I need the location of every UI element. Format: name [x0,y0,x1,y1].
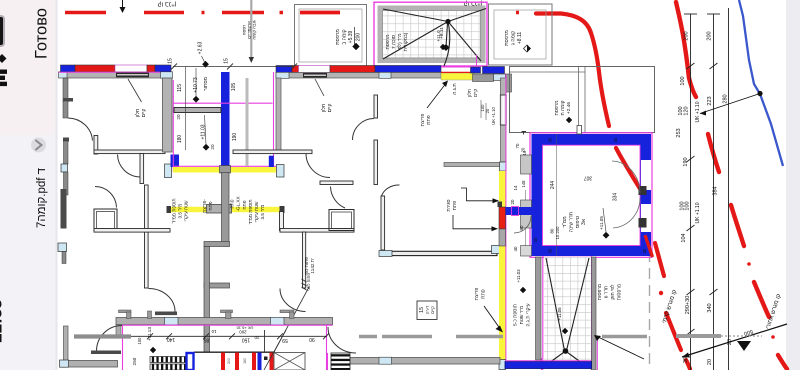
balcony C outline [489,4,553,65]
svg-text:שטח עיקרי: שטח עיקרי [254,201,259,223]
landing with X [274,353,305,370]
balcony B red dash [300,11,340,15]
red marks on right wall [645,235,653,257]
svg-text:244: 244 [550,181,556,190]
svg-text:104: 104 [681,233,687,242]
left outer wall [63,78,68,102]
sidebar chevron circle [31,138,46,153]
yellow band under mistor [173,167,276,173]
svg-text:+2.46: +2.46 [566,102,572,114]
svg-text:מרפסת: מרפסת [335,29,341,45]
svg-text:+11.13: +11.13 [147,327,152,341]
svg-text:200: 200 [356,33,362,42]
bottom dimension line [131,335,327,337]
second stair right [331,353,350,370]
left block top wall: colored segments [59,65,172,78]
svg-text:40: 40 [533,237,538,242]
svg-text:+11.05: +11.05 [557,307,562,321]
svg-text:מ"ר שטח: מ"ר שטח [519,306,525,325]
svg-text:90: 90 [309,336,315,342]
pergola gray frame [380,8,483,61]
svg-text:פתח: פתח [230,199,235,208]
svg-text:Готово: Готово [33,8,51,59]
svg-text:לפי חוק: לפי חוק [609,284,616,300]
svg-text:במקורית): במקורית) [403,32,409,51]
svg-text:מ"ר 3.5: מ"ר 3.5 [178,204,183,219]
svg-text:115: 115 [177,84,183,92]
svg-text:סגירת: סגירת [447,199,452,211]
svg-text:ממ"ד: ממ"ד [562,216,568,228]
section line continuation [246,78,249,166]
svg-text:פתוח כפי: פתוח כפי [304,257,309,275]
svg-text:59: 59 [282,337,288,343]
blue wall frame [532,134,652,256]
center block left wall [276,78,281,152]
svg-text:חלון: חלון [320,104,327,113]
dim line top [173,66,294,68]
left block top wall lower band [67,72,161,78]
svg-text:א3: א3 [581,218,587,225]
room labels [510,137,647,253]
balcony B labels [335,29,362,45]
svg-text:+8.11: +8.11 [439,27,445,39]
red regulation curve 1 (dashed, from top building line down right) [536,14,690,370]
svg-text:14: 14 [513,185,518,190]
right screen-edge strip [786,0,800,370]
svg-text:150: 150 [242,337,251,343]
svg-text:קומה ח: קומה ח [561,100,566,115]
svg-text:קומה ב: קומה ב [342,29,348,44]
pergola balcony (hatched) magenta border [374,2,487,66]
svg-text:15: 15 [224,58,230,64]
svg-text:סוכה 7: סוכה 7 [391,35,397,49]
room dim line vertical [556,134,558,256]
svg-text:140: 140 [167,336,176,342]
sidebar icon: list bars [0,70,7,74]
door arc above closet [331,187,346,209]
magenta renovation lines [123,324,333,326]
yellow wall segment right of center [441,73,474,80]
closet [329,210,354,231]
svg-text:מרפסת: מרפסת [504,30,510,46]
svg-text:190: 190 [232,133,238,142]
svg-text:100: 100 [680,76,686,85]
window on right wall [165,164,172,178]
svg-text:80: 80 [519,225,524,230]
thin wall south of center block [444,163,501,167]
svg-text:+11.03: +11.03 [516,269,521,283]
mistor gray bar [174,108,221,113]
svg-text:תוספת ממ"ד: תוספת ממ"ד [172,198,177,223]
bottom outer walls left [64,326,69,362]
svg-text:20: 20 [254,335,259,340]
wall right of yellow opening [280,212,284,231]
svg-text:10 200: 10 200 [555,226,560,239]
left block window detail [116,73,149,78]
existing window + UK labels right of center [467,89,496,125]
long bottom wall of left rooms [94,229,170,233]
svg-text:קיים: קיים [141,109,147,118]
svg-text:30: 30 [548,248,553,253]
existing-window label left [134,109,147,118]
blue service duct wall [221,72,230,168]
svg-text:פתח: פתח [242,200,247,209]
gray wall below mistor going down [222,173,230,244]
big right room wall [381,196,385,250]
svg-text:334: 334 [613,193,619,202]
right top block blue segments [471,67,481,73]
sidebar icon: diamond [0,54,7,63]
breach label with arrow bottom [475,288,487,301]
breach label with arrow to pergola [421,114,432,127]
balcony B outline [295,5,367,67]
svg-text:20: 20 [176,114,181,120]
svg-text:+5.39: +5.39 [348,30,354,43]
svg-text:30: 30 [642,248,647,253]
svg-text:340: 340 [707,303,713,312]
svg-text:מרפסות: מרפסות [598,284,603,300]
roof stub above room [577,126,582,135]
svg-text:+11.05: +11.05 [599,216,604,230]
left wall protrusions [521,155,532,174]
svg-text:מ"ר 3.5: מ"ר 3.5 [260,205,265,220]
sidebar icon: black rounded square (cropped) [0,16,4,46]
mistor dim vertical [185,67,187,150]
mistor labels [168,41,239,149]
thick gray datum bar bottom right [676,334,721,338]
svg-text:200: 200 [707,31,713,40]
svg-text:80: 80 [550,228,555,233]
center block top wall: colored segments [276,66,441,73]
right dimension line B (x=713.5) [707,14,720,370]
svg-text:10: 10 [522,150,527,155]
svg-text:תוספת כ-5: תוספת כ-5 [513,304,519,326]
door arc left of thin wall [280,289,306,312]
svg-text:250: 250 [132,357,137,365]
svg-text:פתוח לפני: פתוח לפני [306,273,311,291]
apartment-15 box [417,301,437,320]
svg-text:מרפסת: מרפסת [555,100,560,115]
svg-text:UK +1.10: UK +1.10 [695,101,701,122]
svg-text:קו בניין: קו בניין [157,1,176,8]
svg-text:פתח: פתח [208,201,213,210]
top building line (red dashed) [65,11,519,15]
svg-text:חלון: חלון [467,89,472,97]
red regulation curve 2 [676,2,787,369]
window swing arcs [612,161,640,193]
door arc above bathroom [95,187,117,208]
corridor top wall band [116,318,333,325]
thin wall with hatch, center bottom [303,232,306,288]
svg-text:פתח: פתח [482,289,487,298]
svg-text:120: 120 [684,106,690,115]
svg-text:+8.11: +8.11 [517,32,523,44]
svg-text:30: 30 [613,137,618,142]
svg-text:105: 105 [231,83,237,92]
svg-text:223: 223 [707,96,713,105]
pergola cross lines [383,9,486,67]
svg-text:384: 384 [713,186,719,195]
bottom-right survey diagonal with arrow [682,324,787,357]
top-left info column [242,20,257,39]
magenta outer outline [530,133,652,257]
svg-text:גובה קומה: גובה קומה [252,20,257,39]
dashed lot boundary vertical [649,200,651,370]
central vertical wall [145,185,149,288]
svg-text:פריצת: פריצת [475,288,480,301]
svg-text:קיים: קיים [473,89,478,97]
svg-text:מרפסות: מרפסות [618,284,623,300]
right dimension line A (x=690) [684,14,697,370]
dim labels line A [676,31,691,363]
door arc hallway [118,155,141,178]
svg-text:חדר שינה: חדר שינה [569,212,575,232]
svg-text:קיים: קיים [430,306,435,314]
svg-text:עיקרי ת.ג.ה: עיקרי ת.ג.ה [527,303,532,326]
left wall dark pier [61,189,67,229]
svg-text:תוספת ממ"ד: תוספת ממ"ד [248,199,253,224]
leader to door [274,287,309,352]
svg-text:30: 30 [683,357,689,363]
svg-text:280: 280 [723,94,729,103]
svg-text:שטח עיקרי: שטח עיקרי [184,200,189,222]
blue boundary curve [739,0,783,166]
svg-text:190: 190 [683,157,689,166]
svg-text:UK +1.10: UK +1.10 [491,107,496,125]
door arcs off corridor [97,326,123,352]
svg-text:22:55: 22:55 [0,299,6,342]
closure label with leader [447,199,458,211]
svg-text:200: 200 [227,358,231,364]
interior wall: below top-left room [94,136,98,155]
corridor center dashes [359,335,647,338]
section cut bar [250,0,252,58]
svg-text:15: 15 [168,58,174,64]
svg-text:פתח: פתח [427,115,432,124]
svg-text:1142 ת': 1142 ת' [310,258,315,274]
svg-text:307: 307 [584,175,593,181]
right wall of left block (gray) [163,78,173,152]
svg-text:-GL.XX: -GL.XX [236,196,241,211]
svg-text:20: 20 [510,199,515,204]
svg-text:30: 30 [548,137,553,142]
svg-text:20: 20 [210,144,215,150]
svg-text:253: 253 [676,128,682,137]
svg-text:UK +1.10: UK +1.10 [695,202,701,223]
svg-text:UK +6.10: UK +6.10 [236,326,254,331]
bottom wall center [333,358,501,365]
blue patch left of mistor [171,155,180,168]
svg-text:180: 180 [177,135,183,144]
svg-text:פריצת: פריצת [421,114,426,127]
door arc left room [68,118,93,141]
magenta inner outline [543,145,641,245]
leader to blue curve (UK +1.10) [700,94,760,114]
svg-text:פריצת-: פריצת- [202,199,207,213]
blue band at shaft bottom [505,362,592,369]
svg-text:קיים: קיים [327,104,333,113]
balcony H labels [555,100,572,115]
shaft leader arrow [596,336,644,359]
svg-text:מ"ר (לפי: מ"ר (לפי [396,33,403,50]
svg-text:קומה ג: קומה ג [511,31,517,45]
svg-text:+2.63: +2.63 [198,41,204,54]
bathroom small room [94,209,117,231]
building line arrow marker [122,0,124,8]
svg-text:100: 100 [685,201,691,210]
door arc bottom-left of central wall [149,289,176,312]
pergola labels [386,30,441,52]
svg-text:מרפסת: מרפסת [386,34,391,49]
svg-text:20: 20 [707,359,713,365]
svg-text:חלון: חלון [134,109,141,118]
svg-text:160: 160 [243,358,247,364]
svg-text:290+30: 290+30 [685,296,691,315]
svg-text:פתח: פתח [453,201,458,210]
interior wall vertical center [140,154,144,184]
iOS sidebar background [0,0,57,370]
svg-text:10: 10 [211,329,216,334]
yellow openings row [170,207,208,212]
svg-text:85: 85 [204,337,210,343]
svg-text:40: 40 [513,246,518,251]
hall walls center [374,95,378,118]
magenta marks [173,102,272,104]
opened-per-1142 label [304,257,315,291]
existing-window label center [320,104,333,113]
svg-text:מסתור: מסתור [203,76,209,91]
porch label right of shaft [598,284,623,300]
blue connector band to the left [506,207,533,215]
opening labels above yellow row [172,196,266,224]
svg-text:6 חדר: 6 חדר [604,286,610,298]
svg-text:קומה7.pdf ד: קומה7.pdf ד [36,167,48,228]
svg-text:148: 148 [521,180,526,188]
left wall lower segment [64,141,69,164]
pergola tile grid [383,11,481,59]
svg-text:200: 200 [684,31,690,40]
addition label bottom center [513,269,532,327]
right wall window openings [641,160,651,190]
svg-text:70: 70 [515,143,520,148]
svg-text:100: 100 [137,337,142,345]
right dimension line C (x=728.5) [728,8,730,370]
svg-text:ת.ג.ה: ת.ג.ה [452,83,458,95]
